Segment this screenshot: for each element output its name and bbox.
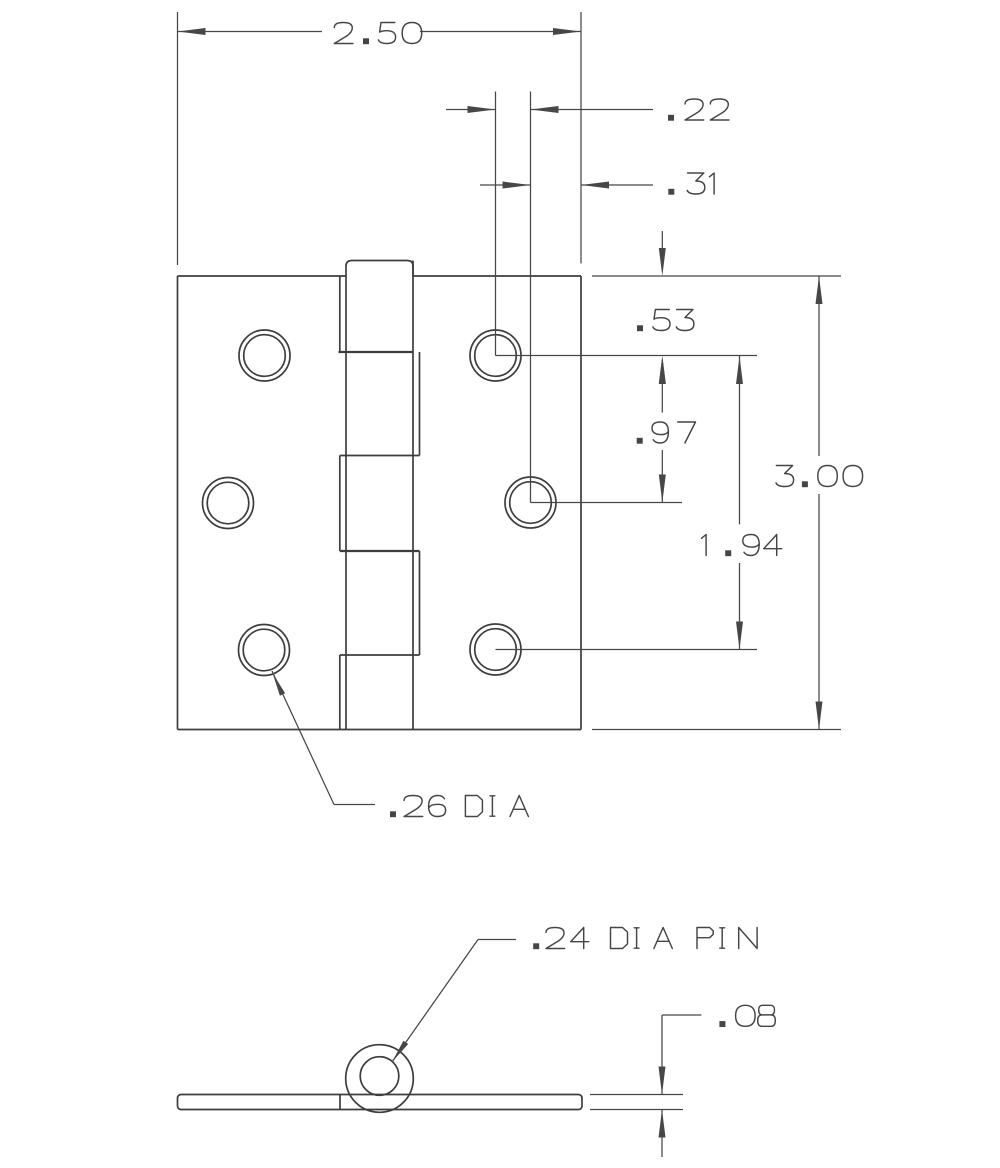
hinge left leaf top edge bbox=[178, 275, 347, 277]
dim .31 line right bbox=[581, 184, 653, 186]
dim .08 arrow up bbox=[659, 1110, 666, 1138]
dim 3.00 arrow top bbox=[816, 276, 823, 304]
dim 3.00 extension line top bbox=[592, 275, 841, 277]
dim .97 line upper bbox=[661, 382, 663, 413]
hinge right edge bbox=[580, 276, 582, 730]
dim .22 line left bbox=[446, 109, 496, 111]
screw hole right top bbox=[470, 330, 521, 381]
screw hole right middle bbox=[505, 477, 556, 528]
hinge right leaf top edge bbox=[413, 275, 581, 277]
dim 1.94 line lower bbox=[739, 563, 741, 650]
knuckle step line 5 bbox=[339, 655, 341, 730]
dim 2.50 extension line right bbox=[580, 12, 582, 264]
dim text .53 bbox=[637, 310, 694, 332]
dim .22 extension line left bbox=[495, 92, 497, 356]
dim 3.00 line upper bbox=[818, 276, 820, 456]
dim .31 arrow right bbox=[581, 182, 609, 189]
screw hole left bottom bbox=[239, 625, 290, 676]
screw hole left middle bbox=[203, 478, 254, 529]
knuckle joint line 4 bbox=[340, 654, 420, 656]
leader .26 line horizontal bbox=[334, 804, 375, 806]
dim 2.50 arrow left bbox=[178, 28, 206, 35]
dim .31 line left bbox=[480, 184, 531, 186]
dim .08 arrow down bbox=[659, 1067, 666, 1095]
leader .24 line diagonal bbox=[392, 940, 478, 1063]
dim .08 corner line bbox=[662, 1014, 701, 1016]
hinge left edge bbox=[177, 276, 179, 730]
dim 1.94 arrow bottom bbox=[736, 622, 743, 650]
dim text 1.94 bbox=[702, 535, 782, 557]
dim .22 arrow left bbox=[468, 106, 496, 113]
side view leaf joint line bbox=[339, 1095, 341, 1110]
dim .08 extension line top bbox=[590, 1094, 683, 1096]
hinge bottom edge bbox=[178, 729, 582, 731]
dim text 2.50 bbox=[334, 23, 421, 45]
dim 1.94 line upper bbox=[739, 356, 741, 524]
dim .08 line upper bbox=[661, 1015, 663, 1095]
knuckle step line 4 bbox=[419, 551, 421, 655]
leader .26 arrowhead bbox=[272, 673, 285, 696]
knuckle joint line 1 bbox=[339, 351, 414, 353]
screw hole left top bbox=[239, 330, 290, 381]
knuckle joint line 3 bbox=[340, 550, 420, 552]
knuckle top tab bbox=[346, 261, 413, 277]
side view pin circle bbox=[360, 1057, 399, 1096]
dim .08 extension line bottom bbox=[590, 1109, 683, 1111]
hole center extension line middle bbox=[531, 502, 683, 504]
hole center extension line bottom bbox=[496, 649, 758, 651]
dim .53 tail top bbox=[661, 231, 663, 249]
barrel left edge bbox=[345, 276, 347, 730]
dim 3.00 line lower bbox=[818, 494, 820, 730]
leader text .24 DIA PIN bbox=[533, 928, 757, 950]
dim 2.50 line right segment bbox=[420, 31, 581, 33]
dim text .08 bbox=[719, 1005, 775, 1027]
dim text .31 bbox=[668, 173, 714, 195]
hole center extension line top bbox=[496, 355, 758, 357]
dim .53 arrow top bbox=[659, 248, 666, 276]
leader text .26 DIA bbox=[390, 796, 528, 818]
dim 2.50 line left segment bbox=[178, 31, 323, 33]
dim .53 arrow bottom bbox=[659, 356, 666, 384]
dim 2.50 arrow right bbox=[553, 28, 581, 35]
leader .26 line diagonal bbox=[272, 671, 334, 805]
dim .31 arrow left bbox=[503, 182, 531, 189]
leader .24 arrowhead bbox=[392, 1041, 408, 1062]
knuckle step line 3 bbox=[339, 456, 341, 552]
barrel right edge bbox=[412, 261, 414, 730]
knuckle step line 2 bbox=[419, 352, 421, 456]
dim .22 extension line right bbox=[530, 92, 532, 503]
knuckle step line 1 bbox=[339, 276, 341, 352]
dim .22 line right bbox=[531, 109, 654, 111]
screw hole right bottom bbox=[470, 624, 521, 675]
dim 1.94 arrow top bbox=[736, 356, 743, 384]
dim 3.00 arrow bottom bbox=[816, 702, 823, 730]
dim .08 line lower bbox=[661, 1110, 663, 1158]
dim .97 arrow top bbox=[659, 356, 666, 384]
dim text 3.00 bbox=[776, 466, 863, 488]
side view leaf plate bbox=[178, 1095, 583, 1110]
knuckle joint line 2 bbox=[340, 455, 420, 457]
dim text .22 bbox=[668, 99, 729, 121]
dim text .97 bbox=[637, 422, 696, 444]
dim .97 line lower bbox=[661, 450, 663, 503]
leader .24 line horizontal bbox=[478, 939, 516, 941]
dim 2.50 extension line left bbox=[177, 12, 179, 265]
side view knuckle outer circle bbox=[346, 1045, 414, 1113]
dim 3.00 extension line bottom bbox=[592, 729, 841, 731]
dim .97 arrow bottom bbox=[659, 475, 666, 503]
dim .22 arrow right bbox=[531, 106, 559, 113]
